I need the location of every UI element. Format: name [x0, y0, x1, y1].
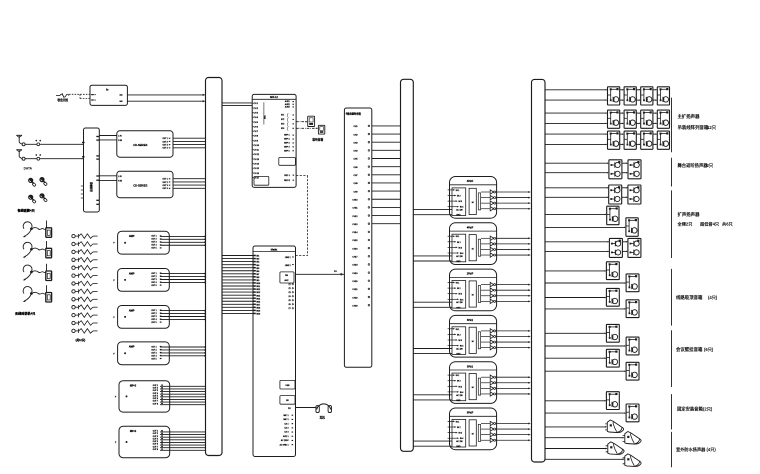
svg-text:3Pb/1: 3Pb/1 — [467, 319, 474, 322]
label zone 5 wall speakers — [676, 346, 714, 353]
horn speaker SP-G2 — [623, 432, 641, 445]
zone amplifier Z3 — [448, 269, 497, 311]
cable trunk riser 1 — [206, 78, 223, 456]
svg-text:CH 8: CH 8 — [254, 136, 258, 138]
svg-text:有线话筒4只: 有线话筒4只 — [18, 208, 36, 213]
wire bus main speakers row1 level2 — [545, 99, 657, 101]
svg-text:会议壁挂音箱: 会议壁挂音箱 — [676, 346, 703, 353]
svg-text:Z7: Z7 — [288, 308, 290, 310]
svg-text:M: M — [472, 387, 474, 389]
svg-text:IN 3: IN 3 — [459, 294, 462, 296]
wire trunk1 to mixer in 2 — [222, 104, 252, 106]
wire receiver to CD1 b — [99, 139, 117, 141]
svg-text:Z1: Z1 — [288, 284, 290, 286]
zone divider line 1 — [671, 98, 673, 153]
svg-text:OUT 2: OUT 2 — [151, 349, 156, 351]
svg-text:OUT 8: OUT 8 — [153, 403, 158, 405]
svg-text:GND: GND — [456, 215, 461, 217]
speaker SP-A4 — [657, 87, 669, 105]
svg-text:GND: GND — [456, 400, 461, 402]
svg-text:IN 1: IN 1 — [456, 329, 459, 331]
wire mixer to monitor speaker 2 dashed — [296, 127, 318, 129]
svg-text:MIC 2: MIC 2 — [283, 419, 288, 421]
speaker SP-A11 — [641, 131, 653, 149]
wire bus main speakers row1 level1 — [545, 89, 657, 91]
wire bus lectern speakers level2 — [545, 197, 628, 199]
speaker SP-A9 — [608, 131, 620, 149]
wire receiver to CD1 a — [99, 135, 117, 137]
svg-text:2只: 2只 — [707, 162, 714, 169]
svg-text:LINE 1: LINE 1 — [285, 257, 291, 259]
wire ANT1 to receiver bar — [25, 140, 83, 146]
wire bus subwoofer speakers level1 — [545, 241, 628, 243]
wire to speaker SP-E2 — [545, 345, 626, 347]
tuner antenna icon — [56, 93, 69, 98]
wire bundle B2 to trunk 1 — [160, 432, 206, 450]
zone amplifier Z6 — [448, 408, 497, 450]
svg-text:扩声扬声器: 扩声扬声器 — [678, 211, 701, 218]
svg-text:AUX3: AUX3 — [285, 106, 290, 109]
svg-text:IN10: IN10 — [256, 283, 260, 285]
wire pair trunk2 to zone amp Z2 — [413, 256, 452, 261]
svg-text:IN 1: IN 1 — [456, 190, 459, 192]
svg-text:ST4: ST4 — [281, 128, 284, 130]
svg-text:IN 4: IN 4 — [460, 299, 463, 301]
svg-text:OUT 1: OUT 1 — [151, 346, 156, 348]
svg-text:超低音4只: 超低音4只 — [699, 221, 720, 228]
svg-text:IN8: IN8 — [256, 277, 259, 279]
svg-text:FM: FM — [285, 275, 288, 277]
svg-text:OUT 2: OUT 2 — [151, 239, 156, 241]
wire bundle Z3 outputs to trunk 3 — [496, 284, 531, 303]
label zone 7 outdoor horns — [676, 446, 716, 453]
svg-text:AC 220: AC 220 — [456, 209, 462, 212]
wire bus lectern speakers level1 — [545, 187, 628, 189]
audio wall jack sockets x13 — [72, 234, 98, 333]
wire to horn speaker SP-G1 — [545, 426, 607, 428]
svg-text:IN 1: IN 1 — [456, 236, 459, 238]
svg-text:MIC: MIC — [265, 115, 267, 119]
svg-text:CH14: CH14 — [352, 232, 358, 234]
wire to speaker SP-F2 — [545, 412, 626, 414]
svg-text:CH22: CH22 — [352, 297, 358, 299]
svg-text:ST1: ST1 — [281, 115, 284, 117]
svg-text:CD-SERIES: CD-SERIES — [133, 184, 147, 188]
cable trunk riser 3 — [532, 79, 546, 462]
wire bundle Z6 outputs to trunk 3 — [496, 422, 531, 441]
wire bus main speakers row2 level1 — [545, 112, 657, 114]
horn speaker SP-G1 — [605, 420, 623, 433]
svg-text:MIC 1: MIC 1 — [283, 415, 288, 417]
svg-text:CH10: CH10 — [352, 199, 358, 201]
wire bundle sequencer to trunk 2 — [372, 126, 401, 224]
svg-text:IN6: IN6 — [256, 271, 259, 273]
zone amplifier Z5 — [448, 362, 497, 404]
wire bundle A1 to trunk 1 — [160, 236, 206, 246]
svg-text:(4只): (4只) — [708, 294, 718, 301]
wire bundle Z4 outputs to trunk 3 — [496, 330, 531, 349]
wire B box to trunk 1 upper — [127, 94, 205, 96]
svg-text:IN 3: IN 3 — [459, 386, 462, 388]
wire bundle B1 to trunk 1 — [160, 386, 206, 404]
microphone MIC2 — [40, 177, 48, 185]
svg-text:CH 9: CH 9 — [254, 140, 258, 142]
svg-text:IN11: IN11 — [256, 286, 260, 288]
CD player unit CD1 — [117, 131, 173, 157]
svg-text:AUX 1: AUX 1 — [283, 435, 288, 438]
speaker SP-D1 — [606, 262, 619, 280]
box B tuner unit — [90, 85, 127, 105]
svg-text:OUT 4: OUT 4 — [163, 148, 168, 150]
svg-text:IN 3: IN 3 — [459, 247, 462, 249]
svg-text:室外防水扬声器: 室外防水扬声器 — [676, 446, 706, 453]
wire bus main speakers row3 level1 — [545, 133, 657, 135]
svg-text:OUT 4: OUT 4 — [151, 355, 156, 357]
wire pair trunk2 to zone amp Z5 — [413, 395, 452, 400]
svg-text:(6只): (6只) — [704, 346, 714, 353]
wire bundle A4 to trunk 1 — [160, 346, 206, 356]
monitor speaker icon S2 — [318, 125, 324, 134]
svg-text:AMP: AMP — [129, 309, 135, 312]
svg-text:CH 5: CH 5 — [254, 122, 258, 124]
cable trunk riser 2 — [401, 79, 414, 451]
speaker SP-A8 — [657, 110, 669, 128]
svg-text:M: M — [472, 248, 474, 250]
svg-text:OUT 3: OUT 3 — [151, 352, 156, 354]
svg-text:REC R: REC R — [284, 180, 291, 182]
svg-text:IN1: IN1 — [256, 256, 259, 258]
svg-text:MP-S: MP-S — [130, 430, 137, 433]
zone amplifier Z2 — [448, 223, 497, 265]
svg-text:4Pb/F: 4Pb/F — [467, 226, 474, 229]
speaker SP-A7 — [641, 110, 653, 128]
svg-text:Matrix: Matrix — [271, 248, 278, 251]
svg-text:CH13: CH13 — [352, 224, 358, 226]
svg-text:CH 14: CH 14 — [254, 164, 259, 166]
antenna ANT1 wireless mic — [16, 135, 25, 146]
wire bundle A2 to trunk 1 — [160, 273, 206, 283]
svg-text:Z3: Z3 — [288, 292, 290, 294]
svg-text:IN2: IN2 — [256, 259, 259, 261]
wire to speaker SP-E3 — [545, 357, 606, 359]
speaker SP-A3 — [641, 87, 653, 105]
svg-text:IN17: IN17 — [256, 304, 260, 306]
svg-text:AUX1: AUX1 — [285, 100, 290, 103]
wire bus stage monitor level2 — [545, 172, 628, 174]
svg-text:IN 4: IN 4 — [460, 438, 463, 440]
svg-text:OUT 4: OUT 4 — [151, 319, 156, 321]
svg-text:IN 2: IN 2 — [457, 381, 460, 383]
svg-text:(2只): (2只) — [703, 405, 713, 412]
svg-text:IN 4: IN 4 — [460, 346, 463, 348]
svg-text:GND: GND — [456, 261, 461, 263]
svg-text:2Pb/F: 2Pb/F — [467, 273, 474, 276]
svg-text:GND: GND — [456, 307, 461, 309]
wire bundle CD1 outputs to trunk 1 — [173, 138, 206, 148]
wire to speaker SP-E4 — [545, 370, 626, 372]
svg-text:ST3: ST3 — [281, 124, 284, 126]
wire pair trunk2 to zone amp Z3 — [413, 302, 452, 307]
speaker SP-A10 — [624, 131, 636, 149]
svg-text:OUT 4: OUT 4 — [151, 245, 156, 247]
mixer console U1 — [252, 94, 296, 187]
wire mixer rec out to matrix dashed — [296, 176, 308, 256]
svg-text:OUT 5: OUT 5 — [151, 322, 156, 324]
receiver rack bar U0 — [81, 128, 100, 212]
svg-text:IN7: IN7 — [256, 274, 259, 276]
svg-text:主扩扬声器: 主扩扬声器 — [678, 113, 701, 120]
svg-text:IN 3: IN 3 — [459, 340, 462, 342]
label zone 1 main speakers — [678, 113, 717, 131]
svg-text:(共12只): (共12只) — [76, 338, 86, 342]
svg-text:CH 10: CH 10 — [254, 145, 259, 147]
svg-text:IN 3: IN 3 — [459, 201, 462, 203]
intercom headset and radio 2 — [23, 241, 52, 258]
svg-text:OUT 8: OUT 8 — [153, 449, 158, 451]
zone divider line 7 — [671, 432, 673, 467]
svg-text:全频2只: 全频2只 — [677, 221, 694, 228]
svg-text:IN13: IN13 — [256, 292, 260, 294]
svg-text:OUT 1: OUT 1 — [163, 179, 168, 181]
speaker SP-D4 — [626, 300, 639, 318]
svg-text:IN 2: IN 2 — [457, 288, 460, 290]
wire bundle Z5 outputs to trunk 3 — [496, 376, 531, 395]
speaker SP-F1 — [606, 392, 619, 410]
wire mixer to monitor speaker 1 — [296, 121, 308, 123]
speaker SP-A6 — [624, 110, 636, 128]
svg-text:CH 4: CH 4 — [254, 117, 258, 119]
svg-text:Z4: Z4 — [288, 296, 290, 298]
wire bundle CD2 outputs to trunk 1 — [173, 179, 206, 189]
svg-text:IN 1: IN 1 — [456, 283, 459, 285]
svg-text:耳机: 耳机 — [320, 415, 326, 419]
svg-text:(4只): (4只) — [707, 446, 717, 453]
amplifier unit A1 — [113, 231, 169, 254]
wire to speaker SP-D1 — [545, 270, 606, 272]
svg-text:收音天线: 收音天线 — [58, 98, 69, 102]
svg-text:AMP: AMP — [129, 346, 135, 349]
svg-text:ST2: ST2 — [281, 119, 284, 121]
svg-text:CH16: CH16 — [352, 248, 358, 250]
svg-text:GND: GND — [456, 354, 461, 356]
svg-text:LINE 2: LINE 2 — [285, 265, 291, 267]
wire receiver to CD2 b — [99, 179, 117, 181]
svg-text:12只: 12只 — [707, 124, 717, 131]
svg-text:CH 2: CH 2 — [254, 108, 258, 110]
wire bus stage monitor level1 — [545, 162, 628, 164]
svg-text:IN16: IN16 — [256, 301, 260, 303]
zone amplifier Z1 — [448, 177, 497, 219]
svg-text:OUT 5: OUT 5 — [151, 358, 156, 360]
svg-text:Z6: Z6 — [288, 304, 290, 306]
wire to speaker SP-E1 — [545, 333, 606, 335]
microphone MIC3 — [29, 195, 37, 203]
svg-text:CH20: CH20 — [352, 281, 358, 283]
svg-text:CH 3: CH 3 — [254, 112, 258, 114]
svg-text:AC 220V: AC 220V — [281, 439, 289, 442]
svg-text:LN 3: LN 3 — [285, 432, 289, 434]
svg-text:无线对讲机4只: 无线对讲机4只 — [14, 310, 36, 315]
speaker SP-A2 — [624, 87, 636, 105]
svg-text:GRP 1: GRP 1 — [284, 135, 290, 137]
wire dashed tuner to box B — [69, 94, 90, 98]
svg-text:CH15: CH15 — [352, 240, 358, 242]
speaker SP-B2 — [628, 160, 641, 179]
horn speaker SP-G4 — [623, 454, 641, 467]
label zone 6 fixed speakers — [677, 405, 713, 412]
svg-text:AUX2: AUX2 — [285, 103, 290, 106]
headphone icon — [316, 404, 332, 413]
microphone MIC4 — [40, 194, 48, 202]
speaker SP-B1 — [609, 160, 622, 179]
svg-text:AC 220: AC 220 — [456, 440, 462, 443]
wire to speaker SP-C3 — [545, 214, 607, 216]
speaker SP-D2 — [626, 274, 639, 292]
zone amplifier Z4 — [448, 315, 497, 357]
svg-text:固定安装音箱: 固定安装音箱 — [677, 405, 703, 412]
svg-text:IN3: IN3 — [256, 262, 259, 264]
wire matrix to headphone — [296, 407, 317, 409]
svg-text:CH 6: CH 6 — [254, 126, 258, 128]
svg-text:OUT 2: OUT 2 — [163, 182, 168, 184]
wire trunk1 to mixer in 1 — [222, 102, 252, 104]
svg-text:共6只: 共6只 — [722, 221, 734, 228]
svg-text:IN 3: IN 3 — [459, 433, 462, 435]
svg-text:OUT 1: OUT 1 — [151, 273, 156, 275]
speaker SP-A1 — [608, 87, 620, 105]
svg-text:M: M — [472, 202, 474, 204]
speaker SP-D3 — [606, 288, 619, 306]
svg-text:CH21: CH21 — [352, 289, 358, 291]
svg-text:IN12: IN12 — [256, 289, 260, 291]
svg-text:GRP 3: GRP 3 — [284, 143, 290, 145]
svg-text:CH 15: CH 15 — [254, 168, 259, 170]
speaker SP-C6 — [628, 238, 641, 257]
svg-text:AMP: AMP — [129, 272, 135, 275]
svg-text:LN 2: LN 2 — [285, 428, 289, 430]
label zone 4 line speakers — [676, 294, 718, 301]
wire to speaker SP-D2 — [545, 282, 626, 284]
wire pair trunk2 to zone amp Z1 — [413, 210, 452, 215]
svg-text:IN20: IN20 — [256, 314, 260, 316]
svg-text:OUT 3: OUT 3 — [163, 145, 168, 147]
speaker SP-C1 — [609, 185, 622, 204]
monitor speaker icon S1 — [308, 116, 315, 126]
svg-text:Z2: Z2 — [288, 288, 290, 290]
svg-text:OUT 4: OUT 4 — [163, 188, 168, 190]
svg-text:OUT 1: OUT 1 — [151, 236, 156, 238]
svg-text:LN 1: LN 1 — [285, 423, 289, 425]
svg-text:IN15: IN15 — [256, 298, 260, 300]
svg-text:OUT 5: OUT 5 — [151, 285, 156, 287]
horn speaker SP-G3 — [606, 442, 624, 455]
wire bundle Z1 outputs to trunk 3 — [496, 191, 531, 210]
svg-text:CH17: CH17 — [352, 257, 358, 259]
svg-text:3Pb/1: 3Pb/1 — [467, 365, 474, 368]
svg-text:IN 4: IN 4 — [460, 392, 463, 394]
svg-text:IN 2: IN 2 — [457, 242, 460, 244]
speaker SP-E1 — [606, 324, 619, 342]
CD player unit CD2 — [117, 171, 173, 197]
wire B box to trunk 1 lower — [127, 100, 205, 102]
zone divider line 5 — [671, 330, 673, 387]
speaker SP-E2 — [626, 337, 639, 355]
svg-text:AC 220: AC 220 — [456, 255, 462, 258]
microphone MIC1 — [29, 178, 37, 186]
wire bus subwoofer speakers level2 — [545, 251, 628, 253]
intercom headset and radio 3 — [23, 264, 52, 281]
svg-text:CH19: CH19 — [352, 273, 358, 275]
svg-text:AC 220: AC 220 — [456, 301, 462, 304]
svg-text:监听音箱: 监听音箱 — [312, 137, 323, 141]
wire receiver to CD2 a — [99, 175, 117, 177]
speaker SP-F2 — [626, 404, 639, 422]
svg-text:CH 13: CH 13 — [254, 159, 259, 161]
svg-text:无线接收: 无线接收 — [89, 182, 93, 193]
svg-text:OUT 2: OUT 2 — [151, 276, 156, 278]
intercom headset and radio 4 — [23, 285, 52, 302]
wire bus main speakers row3 level2 — [545, 144, 657, 146]
wire ANT2 to receiver bar — [25, 154, 83, 160]
svg-text:OUT 3: OUT 3 — [163, 185, 168, 187]
wire matrix to power sequencer — [296, 271, 345, 275]
svg-text:AC 220: AC 220 — [456, 394, 462, 397]
speaker SP-C4 — [626, 218, 638, 237]
svg-text:GRP 4: GRP 4 — [284, 146, 290, 148]
svg-text:CH 7: CH 7 — [254, 131, 258, 133]
wire to speaker SP-F1 — [545, 400, 606, 402]
svg-text:CD-SERIES: CD-SERIES — [133, 143, 147, 147]
svg-text:OUT 2: OUT 2 — [151, 313, 156, 315]
svg-text:3Pb/F: 3Pb/F — [467, 412, 474, 415]
svg-text:AMP: AMP — [129, 235, 135, 238]
svg-text:IN14: IN14 — [256, 295, 260, 297]
amplifier unit A2 — [113, 269, 169, 292]
wire bundle Z2 outputs to trunk 3 — [496, 237, 531, 256]
amplifier unit B1 — [115, 381, 170, 412]
svg-text:OUT 3: OUT 3 — [151, 279, 156, 281]
svg-text:AC GND 1: AC GND 1 — [280, 443, 289, 446]
svg-text:MIX-12: MIX-12 — [270, 96, 278, 99]
svg-text:REC L: REC L — [284, 175, 290, 177]
svg-text:IN18: IN18 — [256, 307, 260, 309]
wire bundle A3 to trunk 1 — [160, 310, 206, 320]
svg-text:OUT 3: OUT 3 — [151, 242, 156, 244]
svg-text:GRP 5: GRP 5 — [284, 150, 290, 152]
svg-text:IN 2: IN 2 — [457, 427, 460, 429]
svg-text:IN 2: IN 2 — [457, 196, 460, 198]
svg-text:GND: GND — [456, 446, 461, 448]
svg-text:GRP 2: GRP 2 — [284, 139, 290, 141]
svg-text:M: M — [472, 434, 474, 436]
svg-text:CH 12: CH 12 — [254, 154, 259, 156]
speaker SP-E4 — [626, 362, 639, 380]
svg-text:OUT 4: OUT 4 — [151, 282, 156, 284]
svg-text:IN9: IN9 — [256, 280, 259, 282]
zone divider line 4 — [671, 269, 673, 326]
svg-text:OUT 1: OUT 1 — [151, 310, 156, 312]
svg-text:IN19: IN19 — [256, 311, 260, 313]
svg-text:IN 1: IN 1 — [456, 421, 459, 423]
amplifier unit A4 — [113, 342, 169, 365]
matrix processor U2 — [253, 246, 296, 457]
svg-text:CH 16: CH 16 — [254, 173, 259, 175]
svg-text:CH18: CH18 — [352, 265, 358, 267]
svg-text:CH23: CH23 — [352, 305, 358, 307]
speaker SP-A5 — [608, 110, 620, 128]
label zone 3 lectern speakers — [677, 211, 734, 228]
svg-text:IN 4: IN 4 — [460, 253, 463, 255]
